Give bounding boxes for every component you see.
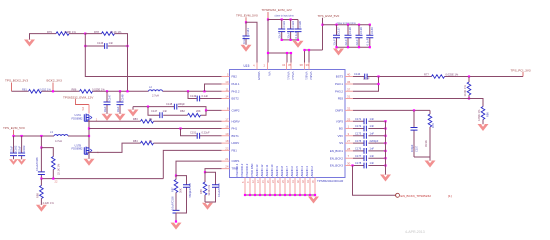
ground right caps rail — [380, 175, 391, 182]
capacitor C173 V5V — [353, 135, 386, 137]
svg-text:35: 35 — [288, 63, 292, 67]
svg-text:TPS_PCI_3V3: TPS_PCI_3V3 — [511, 68, 531, 72]
node caps gnd1 — [281, 39, 283, 41]
svg-text:C144: C144 — [354, 72, 361, 76]
svg-text:C157: C157 — [414, 145, 418, 152]
svg-text:10: 10 — [225, 80, 229, 84]
svg-text:C138: C138 — [348, 27, 352, 34]
wire CMP2 upper branch — [133, 107, 222, 111]
junctions bottom bus — [244, 194, 316, 196]
ground divider — [36, 205, 47, 212]
wire 12V caps bottom rail — [282, 39, 298, 41]
capacitor C146 — [85, 45, 127, 47]
svg-text:FB3: FB3 — [338, 97, 344, 101]
capacitor C136 — [297, 20, 299, 40]
wire HDRV gate jog — [88, 120, 141, 122]
svg-text:FDS6982: FDS6982 — [72, 116, 84, 120]
svg-text:EN_BCK3_TPS65232: EN_BCK3_TPS65232 — [401, 194, 432, 198]
node VIN drop — [267, 52, 269, 54]
svg-text:[1]: [1] — [448, 194, 452, 198]
svg-text:C176: C176 — [355, 147, 362, 151]
resistor R77 — [432, 75, 445, 79]
svg-text:BST2: BST2 — [232, 97, 240, 101]
capacitor CMP3 C157 — [413, 110, 415, 157]
resistor R83 — [141, 120, 154, 124]
wire 5V cap rail — [323, 24, 370, 26]
svg-text:TPS65232_EVM_12V: TPS65232_EVM_12V — [63, 95, 94, 99]
node VINB.2 — [308, 49, 310, 51]
ground FB3 divider — [478, 124, 489, 131]
svg-text:C139: C139 — [359, 27, 363, 34]
svg-text:TPS_BCK2_3V3: TPS_BCK2_3V3 — [5, 79, 28, 83]
svg-text:100pF: 100pF — [410, 144, 414, 152]
svg-text:C173: C173 — [355, 132, 362, 136]
svg-text:R76: R76 — [431, 123, 435, 128]
svg-text:22uF: 22uF — [286, 32, 290, 38]
svg-text:0.1uF: 0.1uF — [202, 94, 209, 98]
svg-text:22uF: 22uF — [17, 146, 21, 152]
svg-text:0E: 0E — [149, 117, 152, 121]
ground CMP3 — [425, 161, 436, 168]
pin numbers top side U15 — [253, 63, 309, 67]
svg-text:22uF: 22uF — [332, 39, 336, 45]
node caps gnd2 — [290, 39, 292, 41]
node 5V cap3 — [358, 24, 360, 26]
wire FB2 rail down to FB2 pin wire — [85, 34, 221, 77]
node 5V caps gnd4 — [369, 46, 371, 48]
svg-text:TPS_EVM_5V0: TPS_EVM_5V0 — [3, 126, 25, 130]
svg-text:17: 17 — [225, 117, 229, 121]
svg-text:PWR PAD: PWR PAD — [250, 164, 254, 177]
svg-text:40: 40 — [347, 73, 351, 77]
svg-text:0.1uF: 0.1uF — [242, 37, 246, 44]
node FB2 divider junction — [84, 33, 86, 35]
capacitor CMP1 parallel C155 — [176, 176, 187, 213]
node PH3.1 — [377, 83, 379, 85]
wire FB2 node to R78 — [85, 33, 101, 35]
node divider rail — [40, 135, 42, 137]
pin stubs bottom side U15 — [245, 178, 315, 196]
svg-text:CMP2: CMP2 — [232, 109, 240, 113]
svg-text:4.99K 1%: 4.99K 1% — [477, 109, 481, 121]
svg-text:28: 28 — [347, 147, 351, 151]
svg-text:19: 19 — [225, 132, 229, 136]
svg-text:31: 31 — [347, 95, 351, 99]
capacitor TRIP C159 — [205, 172, 216, 202]
resistor R divider top 22.1K — [41, 148, 53, 157]
wire VDRV5 feed — [246, 22, 257, 62]
resistor CMP3 R76 — [429, 110, 431, 114]
svg-text:C147: C147 — [107, 94, 111, 101]
capacitor C176 EN_BCK1 — [353, 150, 386, 152]
svg-text:TPS65232A3DCAR: TPS65232A3DCAR — [317, 179, 344, 183]
node FB3 — [468, 97, 470, 99]
capacitor C138 — [347, 25, 349, 48]
node divider tap — [126, 90, 128, 92]
svg-text:PH2.1: PH2.1 — [232, 82, 240, 86]
svg-text:1nF: 1nF — [370, 117, 375, 121]
node C146 left — [84, 45, 86, 47]
svg-text:0.1uF: 0.1uF — [294, 31, 298, 38]
svg-text:1nF: 1nF — [370, 132, 375, 136]
svg-text:30: 30 — [347, 162, 351, 166]
pin numbers right side U15 — [347, 73, 351, 166]
wire PH1 row — [89, 128, 222, 130]
svg-text:C134: C134 — [291, 21, 295, 28]
svg-text:close to input pins: close to input pins — [275, 14, 295, 17]
capacitor C162 22uF — [13, 136, 15, 159]
svg-text:AGND.10: AGND.10 — [270, 164, 274, 176]
node output cap C148 — [119, 90, 121, 92]
ground C141 — [241, 45, 252, 52]
capacitor C171 V3P3 — [353, 120, 386, 122]
wire CMP3 row — [353, 109, 430, 111]
svg-text:R78: R78 — [94, 30, 99, 34]
svg-text:FDS6982: FDS6982 — [72, 147, 84, 151]
node BCK2_3V3 — [52, 90, 54, 92]
node caps gnd3 — [297, 39, 299, 41]
node PH3 rail top — [377, 75, 379, 77]
svg-text:AGND.4: AGND.4 — [300, 166, 304, 177]
svg-text:C136: C136 — [298, 21, 302, 28]
svg-text:32: 32 — [347, 106, 351, 110]
svg-text:R87: R87 — [170, 187, 174, 192]
svg-text:AGND.2: AGND.2 — [310, 166, 314, 177]
svg-text:1nF: 1nF — [370, 161, 375, 165]
wire FET A drain stub — [88, 105, 90, 114]
resistor R lower divider 4.22K — [40, 179, 42, 186]
svg-text:27: 27 — [347, 139, 351, 143]
svg-text:C137: C137 — [337, 27, 341, 34]
svg-text:49.9K: 49.9K — [424, 140, 428, 147]
svg-text:TPS65232_EVM_12V: TPS65232_EVM_12V — [262, 8, 293, 12]
svg-text:25: 25 — [347, 117, 351, 121]
svg-text:2200pF: 2200pF — [370, 139, 379, 143]
svg-text:BST1: BST1 — [232, 134, 240, 138]
svg-text:100pF: 100pF — [178, 102, 186, 106]
node VINA.2 — [290, 52, 292, 54]
svg-text:0.025E 1%: 0.025E 1% — [92, 87, 105, 91]
svg-text:10uF: 10uF — [103, 106, 107, 112]
svg-text:22: 22 — [225, 146, 229, 150]
resistor FB3 upper 10.0K — [468, 77, 470, 83]
capacitor C163 22uF — [21, 136, 23, 159]
svg-text:C151: C151 — [190, 131, 197, 135]
wire BST2 branch — [188, 91, 222, 98]
svg-text:18: 18 — [225, 139, 229, 143]
svg-text:R77: R77 — [424, 72, 429, 76]
ground bottom bus — [308, 197, 319, 204]
svg-text:22.1K 1%: 22.1K 1% — [57, 163, 61, 175]
resistor R86 — [80, 90, 93, 94]
wire R79 to FB2 node — [69, 33, 85, 35]
wire FET B source — [88, 153, 90, 159]
svg-text:0.1uF: 0.1uF — [363, 77, 370, 81]
svg-text:22uF: 22uF — [355, 39, 359, 45]
wire BCK2 output rail — [12, 90, 222, 92]
svg-text:C147: C147 — [151, 109, 158, 113]
wire PH3 rail — [353, 77, 379, 92]
wire BST3 row with C144 — [353, 76, 523, 78]
svg-text:324K 1%: 324K 1% — [207, 184, 211, 195]
ground FET B — [84, 159, 95, 166]
svg-text:C171: C171 — [355, 117, 362, 121]
wire CMP1 pin route — [176, 161, 222, 176]
capacitor C144 — [365, 74, 367, 80]
svg-text:C177: C177 — [355, 154, 362, 158]
ground TRIP — [202, 203, 213, 210]
node L3 switch — [88, 135, 90, 137]
svg-text:R80: R80 — [485, 112, 489, 117]
svg-text:EN_BCK3: EN_BCK3 — [330, 164, 344, 168]
svg-text:FB1: FB1 — [232, 149, 238, 153]
svg-text:4.7uH: 4.7uH — [55, 139, 62, 143]
wire right caps ground rail — [385, 121, 387, 174]
pin names left side U15 — [232, 75, 240, 171]
node output cap C147 — [106, 90, 108, 92]
svg-text:BCK2_3V3: BCK2_3V3 — [47, 79, 63, 83]
svg-text:C162: C162 — [14, 145, 18, 152]
svg-text:24: 24 — [225, 165, 229, 169]
node 12V cap1 — [281, 18, 283, 20]
pin stubs top side U15 — [257, 63, 309, 70]
ground 12V caps — [293, 41, 304, 48]
offpage connector EN_BCK3 — [396, 193, 400, 197]
wire 12V to VIN and VINA — [268, 20, 291, 63]
svg-text:21: 21 — [225, 157, 229, 161]
svg-text:37: 37 — [347, 87, 351, 91]
node 5V caps gnd3 — [358, 46, 360, 48]
svg-text:PH3.2: PH3.2 — [335, 89, 343, 93]
resistor R79 — [56, 32, 69, 36]
wire 5V0 output rail — [14, 135, 90, 137]
node CMP2 split — [147, 106, 149, 108]
svg-text:14: 14 — [225, 95, 229, 99]
capacitor C178 EN_BCK3 — [353, 165, 386, 167]
svg-text:VINA.1: VINA.1 — [287, 72, 291, 81]
svg-text:PH2.2: PH2.2 — [232, 89, 240, 93]
svg-text:2.7uH: 2.7uH — [152, 94, 159, 98]
svg-text:C172: C172 — [355, 124, 362, 128]
capacitor C148 10uF — [119, 91, 121, 114]
capacitor C139 — [358, 25, 360, 48]
svg-text:1nF: 1nF — [109, 41, 114, 45]
pin stubs right side U15 — [345, 77, 353, 166]
svg-text:R85: R85 — [199, 189, 203, 194]
node CMP3 — [413, 109, 415, 111]
capacitor C147 10uF — [106, 91, 108, 114]
resistor TRIP R85 — [204, 172, 206, 182]
svg-text:VIN: VIN — [268, 72, 272, 76]
wire TRIP pin route — [205, 169, 222, 173]
svg-text:C140: C140 — [370, 27, 374, 34]
node out cap2 — [21, 135, 23, 137]
capacitor C151 — [197, 133, 199, 139]
wire PH2.1 riser — [205, 84, 222, 91]
svg-text:VINA.2: VINA.2 — [291, 72, 295, 81]
svg-text:16: 16 — [225, 125, 229, 129]
svg-text:36: 36 — [347, 80, 351, 84]
capacitor C177 EN_BCK2 — [353, 157, 386, 159]
wire bottom ground bus — [245, 194, 315, 196]
capacitor C172 BG — [353, 128, 386, 130]
svg-text:C178: C178 — [355, 161, 362, 165]
svg-text:HDRV: HDRV — [232, 119, 240, 123]
svg-text:C163: C163 — [22, 145, 26, 152]
svg-text:R82: R82 — [180, 109, 185, 113]
svg-text:AGND.7: AGND.7 — [285, 166, 289, 177]
node C146 right — [126, 45, 128, 47]
wire 5V to VINB — [305, 50, 323, 63]
wire 5V caps bottom rail — [337, 46, 370, 48]
svg-text:10.0K 1%: 10.0K 1% — [463, 85, 467, 97]
capacitor C141 — [245, 22, 247, 44]
wire FB1 pin route — [163, 150, 221, 178]
node 5V caps gnd2 — [347, 46, 349, 48]
pin numbers left side U15 — [225, 73, 229, 169]
capacitor C133 — [281, 20, 283, 40]
svg-text:4.22K 1%: 4.22K 1% — [43, 201, 55, 205]
resistor R78 — [102, 32, 115, 36]
node TRIP network — [204, 171, 206, 173]
svg-text:AGND.13: AGND.13 — [255, 164, 259, 176]
svg-text:C141: C141 — [246, 28, 250, 35]
svg-text:R84: R84 — [133, 139, 138, 143]
svg-text:0E: 0E — [149, 139, 152, 143]
node VDRV5 cap — [245, 21, 247, 23]
pin names right side U15 — [330, 75, 344, 168]
wire R83 to HDRV pin — [154, 120, 222, 122]
node 12V cap2 — [290, 18, 292, 20]
wire CMP3 net bottom — [414, 157, 430, 161]
ground CMP2 — [128, 110, 139, 117]
svg-text:V5V: V5V — [338, 134, 344, 138]
svg-text:CMP1: CMP1 — [232, 159, 240, 163]
svg-text:AGND.11: AGND.11 — [265, 164, 269, 176]
svg-text:TPS_EVM_5V0: TPS_EVM_5V0 — [236, 14, 258, 18]
capacitor C140 — [369, 25, 371, 48]
svg-text:LDRV: LDRV — [232, 141, 240, 145]
svg-text:VINB.2: VINB.2 — [309, 72, 313, 81]
svg-text:R86: R86 — [72, 87, 77, 91]
svg-text:VINB.1: VINB.1 — [305, 72, 309, 81]
ground CMP1 — [171, 223, 182, 230]
node CMP2 pin join — [205, 109, 207, 111]
svg-text:C146: C146 — [97, 41, 104, 45]
svg-text:TPS_EVM_5V0: TPS_EVM_5V0 — [318, 14, 340, 18]
transistor U17A FDS6982 — [84, 114, 91, 122]
svg-text:AGND.5: AGND.5 — [295, 166, 299, 177]
svg-text:R79: R79 — [47, 30, 52, 34]
svg-text:C175: C175 — [355, 139, 362, 143]
svg-text:1nF: 1nF — [163, 109, 168, 113]
node CMP1 bottom — [175, 220, 177, 222]
node PH2 switch — [187, 90, 189, 92]
svg-text:0.025E 1%: 0.025E 1% — [446, 72, 459, 76]
svg-text:R81: R81 — [22, 87, 27, 91]
svg-text:C133: C133 — [282, 21, 286, 28]
node out cap1 — [12, 135, 14, 137]
wire EN_BCK3 to offpage — [353, 166, 396, 196]
svg-text:0.22uF: 0.22uF — [202, 131, 210, 135]
ground 5V caps — [333, 49, 344, 56]
capacitor CMP1 C156 — [173, 210, 180, 213]
node 5V cap4 — [369, 24, 371, 26]
svg-text:0.01E 1%: 0.01E 1% — [40, 87, 52, 91]
svg-text:22uF: 22uF — [344, 39, 348, 45]
resistor R81 — [29, 90, 42, 94]
wire FB1 divider rail — [40, 136, 42, 148]
svg-text:0.1uF/C159: 0.1uF/C159 — [217, 183, 221, 197]
wire LDRV gate jog — [88, 143, 141, 152]
node 5V caps gnd1 — [335, 46, 337, 48]
svg-text:0.1uF: 0.1uF — [366, 38, 370, 45]
svg-text:20K: 20K — [196, 109, 201, 113]
resistor FB3 lower 4.99K — [481, 107, 485, 120]
resistor CMP1 R87 — [175, 176, 177, 180]
svg-text:AGND.8: AGND.8 — [280, 166, 284, 177]
wire FB3 row — [353, 99, 483, 107]
svg-text:AGND.9: AGND.9 — [275, 166, 279, 177]
svg-text:34: 34 — [282, 63, 286, 67]
ground C163 — [17, 159, 26, 165]
node 5V rail left — [321, 24, 323, 26]
node PH2.1 riser — [203, 90, 205, 92]
node EN_BCK3 branch — [351, 164, 353, 166]
wire out rail down to BCK2 output — [127, 45, 129, 91]
node VINB.1 — [303, 49, 305, 51]
svg-text:U15: U15 — [244, 64, 250, 68]
node CMP1 network — [175, 175, 177, 177]
transistor U17B FDS6982 — [84, 147, 91, 155]
wire R78 right to out rail — [115, 34, 128, 45]
svg-text:AGND.12: AGND.12 — [260, 164, 264, 176]
svg-text:PGOOD.2: PGOOD.2 — [240, 163, 244, 176]
svg-text:1nF: 1nF — [370, 124, 375, 128]
wire CMP2 lower branch — [148, 107, 206, 116]
svg-text:CMP3: CMP3 — [335, 109, 343, 113]
node 12V rail left — [267, 18, 269, 20]
svg-text:C148: C148 — [120, 94, 124, 101]
inductor L3 — [54, 135, 68, 136]
svg-text:BST3: BST3 — [336, 75, 344, 79]
IC U15 body — [230, 70, 346, 178]
svg-text:39: 39 — [306, 63, 310, 67]
wire BST1 branch with C151 — [181, 129, 222, 136]
svg-text:SS: SS — [339, 141, 343, 145]
node FB1 res — [52, 178, 54, 180]
resistor R82 — [188, 113, 201, 117]
capacitor C175 SS — [353, 142, 386, 144]
wire CMP1 to ground — [175, 213, 177, 222]
svg-text:C149: C149 — [190, 94, 197, 98]
inductor L2 — [149, 90, 163, 91]
svg-text:11: 11 — [225, 87, 228, 91]
capacitor C149 — [197, 96, 199, 102]
svg-text:R83: R83 — [133, 117, 138, 121]
resistor R84 — [141, 141, 154, 145]
svg-text:0.1uF/C166: 0.1uF/C166 — [35, 157, 39, 171]
svg-text:EN_BCK2: EN_BCK2 — [330, 156, 344, 160]
svg-text:AGND.3: AGND.3 — [305, 166, 309, 177]
svg-text:FB2: FB2 — [232, 75, 238, 79]
svg-text:PH3.1: PH3.1 — [335, 82, 343, 86]
svg-text:22uF: 22uF — [278, 32, 282, 38]
capacitor C137 — [336, 25, 338, 48]
svg-text:R88: R88 — [36, 193, 40, 198]
node divider top — [40, 147, 42, 149]
wire R84 to LDRV pin — [154, 142, 222, 144]
